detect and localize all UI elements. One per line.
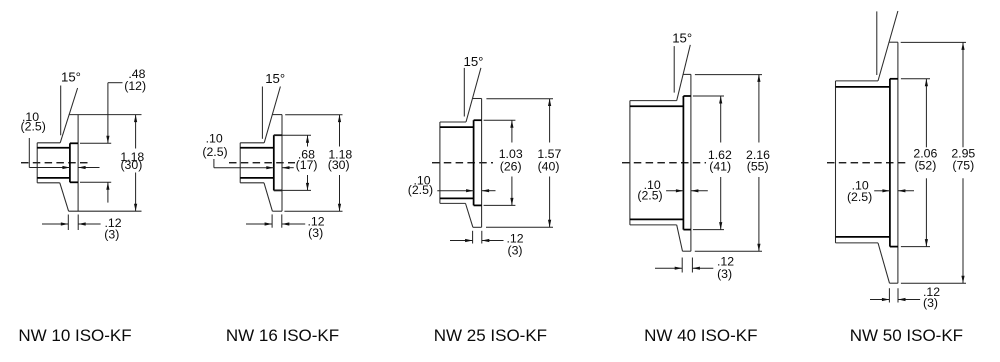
centerline fig2 <box>229 162 295 164</box>
dim flange outer diameter fig1 <box>135 115 137 149</box>
dim .12 (3) flange lip thickness fig5 <box>888 288 890 302</box>
recess top edge fig1 <box>70 142 78 144</box>
bore top edge fig1 <box>37 147 70 149</box>
tube top edge fig5 <box>836 80 879 82</box>
flange top edge + extension fig4 <box>683 73 691 75</box>
svg-text:(26): (26) <box>500 159 522 173</box>
flange top edge + extension fig1 <box>69 114 142 116</box>
svg-text:(52): (52) <box>914 158 936 172</box>
tube end cap fig2 <box>239 143 241 183</box>
svg-text:(3): (3) <box>308 226 323 240</box>
taper bottom edge fig4 <box>677 225 683 251</box>
15deg vertical leg fig3 <box>463 68 465 117</box>
centerline fig3 <box>432 162 493 164</box>
figure 1: NW 10 ISO-KF flange cross-section <box>18 67 146 345</box>
tube top edge fig4 <box>630 100 677 102</box>
bore bottom edge fig4 <box>630 218 684 220</box>
tube bottom edge fig4 <box>630 224 677 226</box>
recess bottom edge fig2 <box>274 189 282 191</box>
taper 15deg edge extended fig3 <box>466 68 481 122</box>
svg-text:NW 25 ISO-KF: NW 25 ISO-KF <box>434 326 547 345</box>
figure 2: NW 16 ISO-KF flange cross-section <box>202 71 352 345</box>
svg-text:NW 50 ISO-KF: NW 50 ISO-KF <box>850 326 963 345</box>
recess floor fig2 <box>273 135 275 190</box>
tube bottom edge fig3 <box>440 202 466 204</box>
svg-text:(3): (3) <box>507 244 522 258</box>
dim recess diameter fig2 <box>274 134 311 136</box>
svg-text:.10: .10 <box>206 132 223 146</box>
recess floor fig3 <box>473 120 475 205</box>
flange bottom edge + extension fig4 <box>683 250 691 252</box>
recess floor fig1 <box>69 143 71 182</box>
tube top edge fig1 <box>37 142 60 144</box>
dim recess diameter fig1 <box>80 142 111 144</box>
bore top edge fig4 <box>630 105 684 107</box>
svg-text:(2.5): (2.5) <box>637 189 662 203</box>
dim flange outer diameter fig2 <box>339 115 341 147</box>
flange face fig4 <box>690 74 692 251</box>
figure 4: NW 40 ISO-KF flange cross-section <box>622 31 770 345</box>
svg-text:(2.5): (2.5) <box>202 145 227 159</box>
tube bottom edge fig2 <box>240 182 264 184</box>
svg-text:(3): (3) <box>104 228 119 242</box>
taper bottom edge fig2 <box>264 183 272 211</box>
svg-text:15°: 15° <box>464 54 484 69</box>
centerline fig1 <box>21 162 91 164</box>
recess top edge fig3 <box>474 119 482 121</box>
taper bottom edge fig5 <box>878 243 890 283</box>
taper 15deg edge extended fig2 <box>264 87 280 143</box>
flange face fig5 <box>897 42 899 283</box>
svg-text:15°: 15° <box>672 31 692 46</box>
figure 5: NW 50 ISO-KF flange cross-section <box>827 11 975 345</box>
svg-text:(41): (41) <box>709 160 731 174</box>
tube end cap fig5 <box>835 81 837 243</box>
tube top edge fig2 <box>240 142 264 144</box>
dim .12 (3) flange lip thickness fig3 <box>472 231 474 244</box>
svg-text:(2.5): (2.5) <box>847 190 872 204</box>
taper bottom edge fig1 <box>60 183 69 211</box>
bore bottom edge fig3 <box>440 197 474 199</box>
recess floor fig4 <box>682 96 684 230</box>
taper bottom edge fig3 <box>466 203 473 227</box>
svg-text:(2.5): (2.5) <box>408 183 433 197</box>
recess bottom edge fig4 <box>683 229 691 231</box>
dim flange outer diameter fig3 <box>549 99 551 143</box>
tube bottom edge fig5 <box>836 242 879 244</box>
taper 15deg edge extended fig1 <box>60 88 77 143</box>
svg-text:(40): (40) <box>538 159 560 173</box>
tube end cap fig3 <box>439 122 441 203</box>
recess top edge fig5 <box>890 78 898 80</box>
dim recess diameter fig5 <box>901 78 930 80</box>
recess bottom edge fig1 <box>70 181 78 183</box>
flange bottom edge + extension fig2 <box>272 210 282 212</box>
15deg vertical leg fig4 <box>673 46 675 93</box>
15deg vertical leg fig2 <box>261 87 263 139</box>
15deg vertical leg fig5 <box>876 11 878 75</box>
taper 15deg edge extended fig4 <box>677 45 691 101</box>
svg-text:NW 10 ISO-KF: NW 10 ISO-KF <box>18 326 131 345</box>
flange face fig2 <box>281 115 283 212</box>
svg-text:(3): (3) <box>923 296 938 310</box>
bore bottom edge fig5 <box>836 236 890 238</box>
svg-text:15°: 15° <box>61 70 81 85</box>
flange bottom edge + extension fig3 <box>473 226 482 228</box>
svg-text:(55): (55) <box>747 160 769 174</box>
tube end cap fig4 <box>629 101 631 225</box>
dim .10 (2.5) recess depth fig5 <box>874 190 890 192</box>
svg-text:NW 16 ISO-KF: NW 16 ISO-KF <box>226 326 339 345</box>
svg-text:(12): (12) <box>124 79 146 93</box>
tube bottom edge fig1 <box>37 182 60 184</box>
bore top edge fig5 <box>836 86 890 88</box>
svg-text:(75): (75) <box>952 158 974 172</box>
svg-text:NW 40 ISO-KF: NW 40 ISO-KF <box>644 326 757 345</box>
svg-text:(3): (3) <box>717 267 732 281</box>
recess top edge fig4 <box>683 95 691 97</box>
svg-text:(30): (30) <box>120 158 142 172</box>
svg-text:(2.5): (2.5) <box>21 120 46 134</box>
dim .12 (3) flange lip thickness fig1 <box>67 215 69 231</box>
tube end cap fig1 <box>36 143 38 183</box>
figure 3: NW 25 ISO-KF flange cross-section <box>408 54 562 345</box>
flange face fig1 <box>77 115 79 212</box>
svg-text:(17): (17) <box>296 158 318 172</box>
bore top edge fig3 <box>440 126 474 128</box>
flange face fig3 <box>481 99 483 228</box>
tube top edge fig3 <box>440 121 466 123</box>
centerline fig5 <box>827 162 907 164</box>
dim .12 (3) flange lip thickness fig4 <box>681 258 683 273</box>
15deg vertical leg fig1 <box>60 86 62 136</box>
flange bottom edge + extension fig1 <box>69 210 142 212</box>
dim .12 (3) flange lip thickness fig2 <box>271 214 273 227</box>
recess bottom edge fig3 <box>474 204 482 206</box>
svg-text:15°: 15° <box>265 71 285 86</box>
recess top edge fig2 <box>274 134 282 136</box>
flange top edge + extension fig2 <box>272 114 282 116</box>
flange top edge + extension fig5 <box>889 41 898 43</box>
dim .10 (2.5) recess depth fig3 <box>437 190 473 192</box>
dim .10 (2.5) recess depth fig1 <box>28 138 30 168</box>
dim .10 (2.5) recess depth fig4 <box>666 190 683 192</box>
recess bottom edge fig5 <box>890 246 898 248</box>
centerline fig4 <box>622 162 706 164</box>
dim recess diameter fig3 <box>484 119 516 121</box>
flange top edge + extension fig3 <box>473 98 482 100</box>
recess floor fig5 <box>889 79 891 247</box>
flange bottom edge + extension fig5 <box>890 282 898 284</box>
dim recess diameter fig4 <box>693 95 724 97</box>
dim flange outer diameter fig4 <box>758 74 760 142</box>
bore bottom edge fig1 <box>37 177 70 179</box>
dim .10 (2.5) recess depth fig2 <box>213 159 215 168</box>
taper 15deg edge extended fig5 <box>878 11 898 81</box>
dim flange outer diameter fig5 <box>962 42 964 147</box>
bore top edge fig2 <box>240 147 274 149</box>
bore bottom edge fig2 <box>240 177 274 179</box>
svg-text:(30): (30) <box>328 158 350 172</box>
